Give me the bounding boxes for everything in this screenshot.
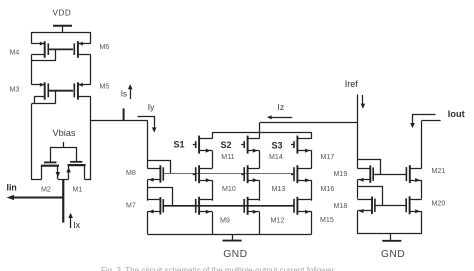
transistor S2 switch M11 [241,144,244,146]
svg-text:Iout: Iout [448,109,465,119]
svg-text:M6: M6 [100,43,110,51]
transistor M16 row2 col3 [291,174,294,176]
transistor M13 row2 col2 [241,174,244,176]
wire Vbias gate wire [51,148,77,163]
wire Iz riser [259,123,261,133]
wire Iy drop [147,120,149,168]
transistor S1 switch [193,144,196,146]
transistor M12 row3 col2 [241,205,244,207]
wire M2/M1 source-drain connectors [31,179,42,181]
transistor M8 [159,165,161,182]
wire M4 drain to gate (diode) [32,50,56,61]
wire M8 gate diode connection [148,161,171,174]
svg-text:M8: M8 [126,169,136,177]
transistor M1 [70,161,82,163]
svg-text:Vbias: Vbias [53,128,76,138]
wire left mid rail to ground bus [147,212,149,235]
wire M3-M5 gate bus [49,90,73,92]
ground right [390,234,392,240]
transistor M21 [406,174,408,176]
svg-text:Iin: Iin [7,183,17,193]
wire left rail upper [31,32,33,44]
wire right rail mid [90,55,92,85]
svg-text:M5: M5 [100,82,110,90]
svg-text:S2: S2 [221,140,232,150]
wire Iref arrow [362,95,364,105]
wire M19-M21 gate wire [380,174,406,176]
svg-text:M19: M19 [334,170,348,178]
wire middle ground bus [147,234,311,236]
svg-text:M12: M12 [271,217,285,225]
wire Ix arrow [70,216,72,229]
wire M18 gate diode connection [358,187,383,206]
wire M4-M6 gate bus [49,48,73,50]
svg-text:M21: M21 [432,167,446,175]
svg-text:M20: M20 [432,199,446,207]
svg-text:M2: M2 [41,185,51,193]
svg-text:M7: M7 [126,202,136,210]
svg-text:M1: M1 [73,185,83,193]
wire Iin input arrow [12,197,63,199]
transistor M9 row3 col1 [193,205,196,207]
wire left rail mid [31,61,33,85]
transistor M6 [77,41,79,58]
transistor M15 row3 col3 [291,205,294,207]
wire M7 gate diode connection [148,188,173,206]
svg-text:Iz: Iz [278,102,285,112]
transistor M5 [77,82,79,99]
wire input stem node X [62,179,64,222]
transistor M10 row2 col1 [193,174,196,176]
transistor M3 [44,82,46,99]
wire right rail to ground [357,211,359,234]
wire node Is horizontal [91,120,148,122]
svg-text:Iref: Iref [345,79,359,89]
VDD supply symbol [53,25,72,27]
wire right rail mid [357,180,359,199]
wire M18-M20 gate wire [382,205,406,207]
wire right rail upper [90,32,92,44]
wire M19 gate diode connection [358,160,381,175]
svg-text:VDD: VDD [53,9,72,18]
transistor M4 [44,41,46,58]
svg-text:M4: M4 [10,49,20,57]
svg-text:Ix: Ix [73,220,80,230]
svg-text:M16: M16 [321,185,335,193]
transistor M7 [159,197,161,214]
wire left rail lower [31,104,33,180]
wire Iy arrow [138,117,155,129]
wire Iout arrow [413,115,436,125]
node Is stub [123,108,125,120]
transistor M18 [371,197,373,214]
wire Iref drop [357,95,359,169]
wire Iz arrow [271,117,293,119]
wire left mid rail [147,180,149,201]
node Vbias terminal stub [63,142,65,148]
wire Iz bus [260,122,358,124]
svg-text:S1: S1 [174,140,185,150]
transistor M20 [406,205,408,207]
wire row3 gate bus [164,205,295,207]
wire Iout stub [422,120,441,122]
wire row2 gate bus [164,173,295,175]
transistor M19 [369,165,371,182]
svg-text:M15: M15 [320,216,334,224]
svg-text:Iy: Iy [148,102,155,112]
wire switch drain bus [212,132,311,134]
svg-text:GND: GND [223,249,247,260]
wire VDD rail [32,32,91,34]
cropped figure caption at bottom edge [101,266,471,271]
svg-text:M9: M9 [220,217,230,225]
wire right ground bus [357,233,421,235]
svg-text:GND: GND [381,249,405,260]
wire right rail lower [90,97,92,180]
transistor S3 switch M14 [291,144,294,146]
svg-text:M17: M17 [321,153,335,161]
svg-text:M13: M13 [272,185,286,193]
svg-text:M3: M3 [10,86,20,94]
wire M3 drain to gate (diode) [34,97,36,104]
ground middle [232,234,234,240]
svg-text:M10: M10 [222,185,236,193]
svg-text:Is: Is [121,90,127,99]
svg-text:S3: S3 [272,140,283,150]
transistor M2 [44,161,56,163]
svg-text:M18: M18 [334,202,348,210]
wire Is arrow [130,88,132,100]
svg-text:M14: M14 [269,153,283,161]
svg-text:M11: M11 [221,153,234,161]
